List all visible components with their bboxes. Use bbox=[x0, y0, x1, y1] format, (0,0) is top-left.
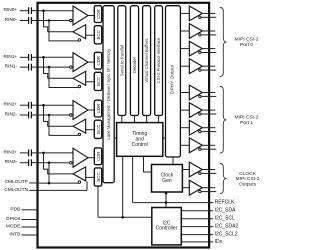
wire driver B1 to BCC1 bbox=[86, 81, 95, 83]
wire RIN0- pin lead bbox=[20, 20, 28, 22]
svg-text:BCC: BCC bbox=[96, 77, 101, 86]
wire CDR0 to lane management block bbox=[102, 15, 103, 17]
wire RIN3- internal to receiver inverting input bbox=[39, 162, 70, 164]
brace group MIPI CSI-2 Port 0 bbox=[220, 8, 227, 77]
wire CMLOUTN pin lead bbox=[29, 189, 36, 191]
svg-text:BCC: BCC bbox=[96, 30, 101, 39]
wire I2C Controller to pin I2C_SDA bbox=[181, 210, 213, 212]
wire GPIOs pin lead bbox=[22, 219, 37, 221]
BCC block channel 0 bbox=[94, 26, 101, 44]
svg-text:RIN2-: RIN2- bbox=[5, 112, 18, 118]
CDR block channel 2 bbox=[94, 100, 101, 117]
CDR block channel 0 bbox=[94, 6, 101, 23]
wire RIN2+ cap to chip edge bbox=[32, 104, 36, 106]
wire RIN0+ pin lead bbox=[20, 10, 28, 12]
wire driver D3 complement output bbox=[201, 52, 216, 54]
junction node Clock Gen bottom bbox=[165, 192, 168, 195]
wire Timing and Control to REFCLK net bbox=[132, 156, 134, 202]
wire driver B3 to BCC3 bbox=[86, 176, 95, 178]
svg-text:MODE: MODE bbox=[6, 224, 20, 230]
block: Virtual Channel Buffers bbox=[143, 6, 151, 116]
svg-text:REFCLK: REFCLK bbox=[215, 200, 235, 206]
wire RIN3- pin lead bbox=[20, 162, 28, 164]
back-channel driver B3 (reverse triangle) bbox=[73, 167, 86, 181]
output driver D1 bbox=[189, 6, 202, 21]
inverting output bubble of driver D9 bbox=[199, 172, 201, 174]
inverting input bubble of receiver A1 bbox=[70, 66, 73, 69]
svg-text:Controller: Controller bbox=[156, 226, 178, 232]
junction node RIN0+ tap bbox=[42, 9, 45, 12]
svg-text:Port 0: Port 0 bbox=[240, 42, 253, 48]
wire DPHY Output to driver D8 bbox=[180, 144, 189, 146]
wire back-channel driver B1 inverting output to RIN1- line bbox=[49, 67, 79, 87]
junction node REFCLK net bbox=[165, 201, 168, 204]
svg-text:I2C_SDA2: I2C_SDA2 bbox=[215, 224, 239, 230]
svg-text:Gen: Gen bbox=[162, 178, 172, 184]
wire receiver A3 output to CDR3 bbox=[88, 157, 94, 159]
block: Decoder bbox=[130, 6, 138, 116]
wire pipeline stub 2 to Timing and Control bbox=[134, 116, 136, 123]
wire RIN1- cap to chip edge bbox=[32, 66, 36, 68]
svg-text:CDR: CDR bbox=[96, 56, 101, 66]
block: Clock Gen U-CG bbox=[152, 165, 183, 193]
svg-text:RIN1-: RIN1- bbox=[5, 64, 18, 70]
inverting output bubble of driver B1 bbox=[78, 85, 81, 88]
wire back-channel driver B3 output to RIN3+ line (with jog) bbox=[44, 153, 74, 174]
receiver amplifier A0 (forward channel) bbox=[73, 6, 88, 25]
inverting output bubble of driver D6 bbox=[199, 113, 201, 115]
wire Clock Gen to clock driver D9 bbox=[182, 169, 189, 171]
BCC block channel 3 bbox=[94, 168, 101, 186]
inverting output bubble of driver D3 bbox=[199, 51, 201, 53]
wire driver D4 true output bbox=[202, 65, 215, 67]
junction node RIN3+ tap bbox=[42, 152, 45, 155]
svg-text:RIN3+: RIN3+ bbox=[3, 149, 17, 155]
wire RIN2- cap to chip edge bbox=[32, 114, 36, 116]
svg-text:CDR: CDR bbox=[96, 152, 101, 162]
inverting output bubble of driver D2 bbox=[199, 34, 201, 36]
output driver D6 bbox=[189, 103, 202, 118]
inverting output bubble of driver B2 bbox=[78, 133, 81, 136]
svg-text:GPIOs: GPIOs bbox=[6, 216, 21, 222]
brace group clock outputs bbox=[220, 164, 227, 194]
junction node RIN2+ tap bbox=[42, 104, 45, 107]
wire driver D7 complement output bbox=[201, 131, 216, 133]
inverting output bubble of driver D4 bbox=[199, 69, 201, 71]
wire lane management to Timing and Control bbox=[114, 137, 116, 139]
wire I2C bus to I2C Controller bbox=[98, 216, 152, 218]
CDR block channel 1 bbox=[94, 52, 101, 69]
wire CMLOUTN internal bbox=[39, 189, 87, 191]
inverting output bubble of driver D1 bbox=[199, 16, 201, 18]
wire DPHY Output to Clock Gen stub bbox=[172, 157, 174, 165]
wire MODE pin lead bbox=[22, 226, 37, 228]
capacitor C7 (AC coupling on RIN3+) bbox=[28, 150, 30, 157]
block: CSI-2 Protocol Interface bbox=[155, 6, 163, 116]
wire RIN0+ internal to receiver input bbox=[39, 10, 73, 12]
wire Clock Gen to I2C Controller bbox=[165, 192, 167, 208]
inverting output bubble of driver D7 bbox=[199, 130, 201, 132]
wire driver B2 to BCC2 bbox=[86, 129, 95, 131]
wire RIN3+ pin lead bbox=[20, 152, 28, 154]
wire back-channel driver B2 inverting output to RIN2- line bbox=[49, 115, 79, 135]
svg-text:Outputs: Outputs bbox=[239, 181, 257, 187]
BCC block channel 1 bbox=[94, 72, 101, 90]
wire DPHY Output to driver D5 bbox=[180, 92, 189, 94]
inverting output bubble of driver D10 bbox=[199, 190, 201, 192]
inverting input bubble of receiver A0 bbox=[70, 19, 73, 22]
junction node RIN1- tap bbox=[48, 66, 51, 69]
svg-text:I2C_SCL: I2C_SCL bbox=[215, 216, 236, 222]
svg-text:RIN0+: RIN0+ bbox=[3, 7, 17, 13]
wire RIN1+ internal to receiver input bbox=[39, 56, 73, 58]
output driver D7 bbox=[189, 120, 202, 135]
output driver D3 bbox=[189, 41, 202, 56]
wire DPHY Output to driver D4 bbox=[180, 65, 189, 67]
wire INTB pin lead bbox=[22, 234, 37, 236]
wire CDR3 to lane management block bbox=[102, 157, 103, 159]
wire RIN2- internal to receiver inverting input bbox=[39, 114, 70, 116]
svg-text:CLOCK: CLOCK bbox=[239, 171, 257, 177]
inverting input bubble of receiver A3 bbox=[70, 161, 73, 164]
receiver amplifier A3 (forward channel) bbox=[73, 148, 88, 167]
output driver D8 bbox=[189, 138, 202, 153]
wire back-channel driver B0 output to RIN0+ line (with jog) bbox=[44, 11, 74, 32]
junction node I2C bus bbox=[121, 216, 124, 219]
wire receiver A0 output to CDR0 bbox=[88, 15, 94, 17]
wire Clock Gen to clock driver D10 bbox=[182, 187, 189, 189]
wire CDR1 to lane management block bbox=[102, 61, 103, 63]
wire CMLOUTP pin lead bbox=[29, 182, 36, 184]
inverting output bubble of driver D8 bbox=[199, 148, 201, 150]
wire RIN1+ cap to chip edge bbox=[32, 56, 36, 58]
svg-text:CMLOUTP: CMLOUTP bbox=[5, 179, 28, 185]
wire RIN3+ internal to receiver input bbox=[39, 152, 73, 154]
svg-text:Port 1: Port 1 bbox=[240, 120, 253, 126]
capacitor C3 (AC coupling on RIN1+) bbox=[28, 54, 30, 61]
capacitor C8 (AC coupling on RIN3-) bbox=[28, 159, 30, 166]
receiver amplifier A1 (forward channel) bbox=[73, 53, 88, 72]
block: Timing and Control U-TC bbox=[117, 123, 163, 157]
wire RIN2+ pin lead bbox=[20, 104, 28, 106]
svg-text:PDB: PDB bbox=[10, 206, 20, 212]
wire I2C Controller to pin IDx bbox=[181, 241, 213, 243]
wire PDB pin lead bbox=[22, 209, 37, 211]
wire RIN2+ internal to receiver input bbox=[39, 104, 73, 106]
svg-text:RIN1+: RIN1+ bbox=[3, 54, 17, 60]
wire CMLOUTN riser to driver B3 bbox=[86, 182, 88, 191]
inverting output bubble of driver B3 bbox=[78, 181, 81, 184]
svg-text:Virtual Channel Buffers: Virtual Channel Buffers bbox=[144, 39, 149, 83]
wire RIN1- internal to receiver inverting input bbox=[39, 66, 70, 68]
inverting output bubble of driver D5 bbox=[199, 95, 201, 97]
chip outer boundary box bbox=[38, 3, 210, 248]
wire driver D5 true output bbox=[202, 92, 215, 94]
wire DPHY Output to driver D7 bbox=[180, 127, 189, 129]
wire driver D5 complement output bbox=[201, 95, 216, 97]
wire BCC column to I2C bus riser bbox=[97, 186, 99, 218]
wire CDR2 to lane management block bbox=[102, 109, 103, 111]
svg-text:BCC: BCC bbox=[96, 125, 101, 134]
wire RIN0- cap to chip edge bbox=[32, 20, 36, 22]
wire DPHY Output to driver D2 bbox=[180, 30, 189, 32]
capacitor C5 (AC coupling on RIN2+) bbox=[28, 102, 30, 109]
back-channel driver B0 (reverse triangle) bbox=[73, 25, 86, 39]
wire RIN3- cap to chip edge bbox=[32, 162, 36, 164]
wire driver D3 true output bbox=[202, 48, 215, 50]
svg-text:Control: Control bbox=[132, 142, 148, 148]
wire driver D1 true output bbox=[202, 12, 215, 14]
wire driver D10 true output bbox=[202, 187, 215, 189]
wire driver D7 true output bbox=[202, 127, 215, 129]
svg-text:DPHY Output: DPHY Output bbox=[169, 64, 175, 94]
output driver D9 bbox=[189, 162, 202, 177]
receiver amplifier A2 (forward channel) bbox=[73, 101, 88, 120]
svg-text:CDR: CDR bbox=[96, 104, 101, 114]
svg-text:Decoder: Decoder bbox=[132, 56, 137, 73]
block: I2C Controller U-I2C bbox=[152, 208, 182, 245]
wire back-channel driver B1 output to RIN1+ line (with jog) bbox=[44, 57, 74, 78]
block: Lane Management / Deskew / Sync I/F / Memory bbox=[103, 6, 114, 183]
inverting input bubble of receiver A2 bbox=[70, 114, 73, 117]
wire driver D6 complement output bbox=[201, 113, 216, 115]
wire I2C Controller to pin I2C_SCL2 bbox=[181, 234, 213, 236]
wire driver D8 complement output bbox=[201, 148, 216, 150]
svg-text:BCC: BCC bbox=[96, 172, 101, 181]
junction node RIN3- tap bbox=[48, 161, 51, 164]
svg-text:MIPI CSI-2: MIPI CSI-2 bbox=[235, 37, 259, 43]
wire pipeline stub 4 to Timing and Control bbox=[158, 116, 160, 123]
brace group MIPI CSI-2 Port 1 bbox=[220, 87, 227, 154]
output driver D4 bbox=[189, 59, 202, 74]
junction node RIN1+ tap bbox=[42, 56, 45, 59]
wire REFCLK net to pin bbox=[133, 202, 214, 204]
junction node CMLOUTP tap bbox=[48, 182, 51, 185]
capacitor C4 (AC coupling on RIN1-) bbox=[28, 64, 30, 71]
svg-text:RIN2+: RIN2+ bbox=[3, 102, 17, 108]
wire RIN3+ cap to chip edge bbox=[32, 152, 36, 154]
svg-text:MIPI CSI-2: MIPI CSI-2 bbox=[235, 115, 259, 121]
wire driver D2 true output bbox=[202, 30, 215, 32]
junction node RIN2- tap bbox=[48, 114, 51, 117]
svg-text:IDx: IDx bbox=[215, 239, 223, 245]
wire RIN0- internal to receiver inverting input bbox=[39, 20, 70, 22]
wire driver D8 true output bbox=[202, 144, 215, 146]
output driver D10 bbox=[189, 180, 202, 195]
wire driver D9 true output bbox=[202, 169, 215, 171]
wire driver D10 complement output bbox=[201, 191, 216, 193]
wire RIN2- pin lead bbox=[20, 114, 28, 116]
CDR block channel 3 bbox=[94, 148, 101, 165]
wire DPHY Output to driver D6 bbox=[180, 109, 189, 111]
inverting output bubble of driver B0 bbox=[78, 39, 81, 42]
wire pipeline stub 1 to Timing and Control bbox=[121, 116, 123, 123]
wire DPHY Output to driver D3 bbox=[180, 48, 189, 50]
wire RIN1+ pin lead bbox=[20, 56, 28, 58]
svg-text:CDR: CDR bbox=[96, 9, 101, 19]
wire I2C Controller to pin I2C_SDA2 bbox=[181, 226, 213, 228]
wire DPHY Output to driver D1 bbox=[180, 12, 189, 14]
back-channel driver B2 (reverse triangle) bbox=[73, 119, 86, 133]
svg-text:MIPI CSI-2: MIPI CSI-2 bbox=[236, 176, 260, 182]
wire driver D9 complement output bbox=[201, 172, 216, 174]
svg-text:INTB: INTB bbox=[9, 232, 20, 238]
wire RIN1- pin lead bbox=[20, 66, 28, 68]
wire Timing and Control to Clock Gen (L route) bbox=[144, 156, 152, 172]
svg-text:RIN3-: RIN3- bbox=[5, 159, 18, 165]
svg-text:I2C_SCL2: I2C_SCL2 bbox=[215, 232, 238, 238]
junction node RIN0- tap bbox=[48, 19, 51, 22]
wire RIN0+ cap to chip edge bbox=[32, 10, 36, 12]
wire driver B0 to BCC0 bbox=[86, 34, 95, 36]
wire driver D4 complement output bbox=[201, 69, 216, 71]
output driver D2 bbox=[189, 24, 202, 39]
wire Timing and Control to I2C bus bbox=[122, 156, 124, 217]
svg-text:CMLOUTN: CMLOUTN bbox=[4, 187, 28, 193]
output driver D5 bbox=[189, 85, 202, 100]
svg-text:RIN0-: RIN0- bbox=[5, 17, 18, 23]
BCC block channel 2 bbox=[94, 120, 101, 138]
wire driver D1 complement output bbox=[201, 16, 216, 18]
svg-text:I2C_SDA: I2C_SDA bbox=[215, 208, 237, 214]
wire back-channel driver B2 output to RIN2+ line (with jog) bbox=[44, 105, 74, 126]
wire back-channel driver B3 inverting output / CMLOUTP net bbox=[39, 163, 80, 183]
back-channel driver B1 (reverse triangle) bbox=[73, 71, 86, 85]
wire I2C Controller to pin I2C_SCL bbox=[181, 218, 213, 220]
capacitor C2 (AC coupling on RIN0-) bbox=[28, 17, 30, 24]
capacitor C6 (AC coupling on RIN2-) bbox=[28, 112, 30, 119]
block: Serial to Parallel bbox=[118, 6, 126, 116]
wire driver D2 complement output bbox=[201, 34, 216, 36]
wire receiver A1 output to CDR1 bbox=[88, 61, 94, 63]
wire receiver A2 output to CDR2 bbox=[88, 109, 94, 111]
block: DPHY Output bbox=[166, 6, 181, 157]
svg-text:Serial to Parallel: Serial to Parallel bbox=[119, 45, 124, 76]
wire pipeline stub 3 to Timing and Control bbox=[146, 116, 148, 123]
wire Timing and Control to DPHY Output bbox=[163, 137, 166, 139]
svg-text:Lane Management / Deskew / Syn: Lane Management / Deskew / Sync I/F / Me… bbox=[106, 48, 111, 140]
wire back-channel driver B0 inverting output to RIN0- line bbox=[49, 21, 79, 41]
svg-text:CSI-2 Protocol Interface: CSI-2 Protocol Interface bbox=[156, 37, 161, 83]
capacitor C1 (AC coupling on RIN0+) bbox=[28, 7, 30, 14]
wire driver D6 true output bbox=[202, 109, 215, 111]
